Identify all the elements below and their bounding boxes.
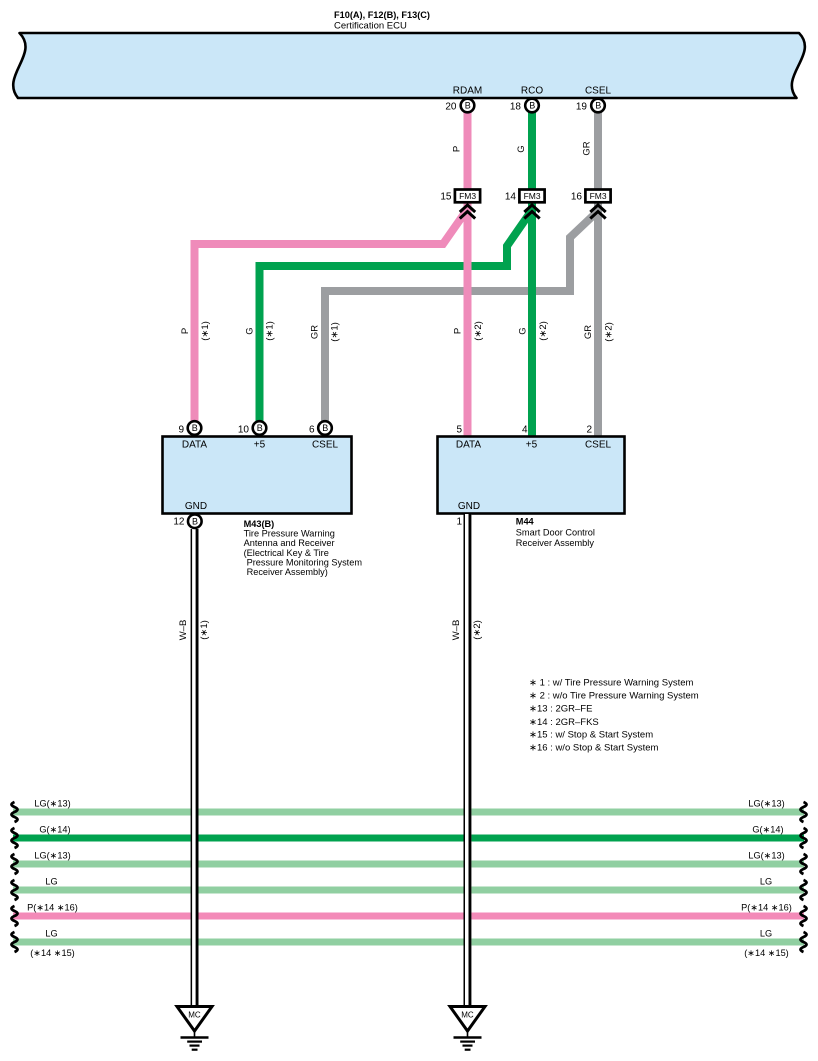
svg-text:GR: GR [583, 325, 594, 339]
notes list [529, 678, 699, 754]
svg-text:Pressure Monitoring System: Pressure Monitoring System [247, 557, 363, 567]
svg-text:LG: LG [45, 929, 57, 939]
svg-text:∗ 2 : w/o Tire Pressure Warnin: ∗ 2 : w/o Tire Pressure Warning System [529, 691, 699, 702]
svg-text:(∗1): (∗1) [330, 322, 341, 342]
svg-text:(∗2): (∗2) [472, 620, 483, 640]
wire W-B from M43 GND to ground MC (white wire covers buses) [191, 529, 199, 1007]
svg-text:2: 2 [586, 425, 592, 436]
svg-text:(Electrical Key & Tire: (Electrical Key & Tire [244, 548, 329, 558]
svg-text:M43(B): M43(B) [244, 519, 275, 529]
pin 19 circle B [591, 99, 605, 113]
svg-text:B: B [192, 516, 198, 526]
svg-text:∗13 : 2GR–FE: ∗13 : 2GR–FE [529, 704, 592, 715]
svg-text:15: 15 [440, 192, 452, 203]
svg-text:(∗1): (∗1) [200, 321, 211, 341]
svg-text:FM3: FM3 [524, 191, 541, 201]
svg-text:P(∗14 ∗16): P(∗14 ∗16) [741, 903, 792, 913]
svg-text:LG: LG [760, 929, 772, 939]
wire GR branch to M43 CSEL (behind others) [325, 211, 598, 422]
svg-text:P: P [180, 328, 191, 334]
svg-text:16: 16 [571, 192, 583, 203]
pin 18 circle B [525, 99, 539, 113]
svg-text:GND: GND [185, 501, 207, 512]
wire W-B from M44 GND to ground MC (white wire covers buses) [464, 514, 472, 1007]
bus wire LG(*13) second [13, 861, 804, 868]
svg-text:Certification ECU: Certification ECU [334, 21, 407, 32]
svg-text:14: 14 [505, 192, 517, 203]
wire G vertical to M44 +5 [528, 200, 536, 437]
svg-text:B: B [322, 423, 328, 433]
svg-text:G(∗14): G(∗14) [39, 825, 70, 835]
wire G branch to M43 +5 [260, 210, 533, 422]
M43 pin 12 circle B [188, 514, 202, 528]
svg-text:M44: M44 [516, 517, 535, 527]
bus wire P(*14 *16) [13, 913, 804, 920]
svg-text:GR: GR [582, 141, 593, 155]
svg-text:19: 19 [576, 102, 588, 113]
svg-text:B: B [257, 423, 263, 433]
svg-text:LG: LG [760, 877, 772, 887]
wire P vertical to M44 DATA [464, 200, 472, 437]
svg-text:∗14 : 2GR–FKS: ∗14 : 2GR–FKS [529, 717, 599, 728]
svg-text:4: 4 [522, 425, 528, 436]
bus wire G(*14) [13, 835, 804, 842]
svg-text:DATA: DATA [182, 440, 208, 451]
svg-text:5: 5 [456, 425, 462, 436]
connector FM3 pin 14 [505, 190, 545, 219]
svg-text:RCO: RCO [521, 86, 543, 97]
svg-text:B: B [465, 101, 471, 111]
svg-text:P: P [452, 328, 463, 334]
wire P from ECU RDAM to FM3 [464, 108, 472, 192]
svg-text:12: 12 [173, 517, 185, 528]
svg-text:+5: +5 [254, 440, 266, 451]
M43 label text [244, 519, 363, 577]
M43(B) box [163, 437, 352, 514]
svg-text:Receiver Assembly: Receiver Assembly [516, 538, 595, 548]
svg-text:P(∗14 ∗16): P(∗14 ∗16) [27, 903, 78, 913]
svg-text:CSEL: CSEL [585, 86, 612, 97]
svg-text:18: 18 [510, 102, 522, 113]
wire G from ECU RCO to FM3 [528, 108, 536, 192]
wire GR from ECU CSEL to FM3 [594, 108, 602, 192]
bus tear marks left [12, 802, 18, 952]
svg-text:DATA: DATA [456, 440, 482, 451]
svg-text:(∗1): (∗1) [265, 321, 276, 341]
svg-text:+5: +5 [526, 440, 538, 451]
svg-text:FM3: FM3 [459, 191, 476, 201]
wire GR vertical to M44 CSEL [594, 200, 602, 437]
connector FM3 pin 16 [571, 190, 611, 219]
svg-text:10: 10 [238, 425, 250, 436]
svg-text:RDAM: RDAM [453, 86, 482, 97]
svg-text:G(∗14): G(∗14) [752, 825, 783, 835]
bus wire LG(*13) [13, 809, 804, 816]
M44 box [438, 437, 625, 514]
M43 pin 9 circle B [188, 421, 202, 435]
bus tear marks right [801, 802, 807, 952]
svg-text:FM3: FM3 [590, 191, 607, 201]
svg-text:F10(A), F12(B), F13(C): F10(A), F12(B), F13(C) [334, 10, 430, 20]
svg-text:(∗2): (∗2) [604, 322, 615, 342]
svg-text:LG: LG [45, 877, 57, 887]
svg-text:(∗14 ∗15): (∗14 ∗15) [30, 948, 75, 958]
svg-text:LG(∗13): LG(∗13) [748, 799, 784, 809]
svg-text:G: G [517, 327, 528, 334]
svg-text:B: B [192, 423, 198, 433]
svg-text:GR: GR [310, 325, 321, 339]
svg-text:9: 9 [178, 425, 184, 436]
svg-text:(∗2): (∗2) [538, 321, 549, 341]
svg-text:1: 1 [456, 517, 462, 528]
svg-text:CSEL: CSEL [585, 440, 612, 451]
svg-text:(∗14 ∗15): (∗14 ∗15) [744, 948, 789, 958]
ground MC right [450, 1007, 485, 1050]
pin 20 circle B [461, 99, 475, 113]
svg-text:B: B [529, 101, 535, 111]
svg-text:LG(∗13): LG(∗13) [34, 799, 70, 809]
svg-text:P: P [452, 146, 463, 152]
svg-text:W–B: W–B [451, 620, 462, 641]
ECU F10/F12/F13 Certification ECU band [13, 33, 805, 98]
svg-text:G: G [516, 145, 527, 152]
bus labels right [741, 799, 792, 959]
svg-text:Smart Door Control: Smart Door Control [516, 528, 595, 538]
svg-text:∗ 1 : w/ Tire Pressure Warning: ∗ 1 : w/ Tire Pressure Warning System [529, 678, 693, 689]
ground MC left [177, 1007, 212, 1050]
M44 label text [516, 517, 595, 549]
svg-text:GND: GND [458, 501, 480, 512]
svg-text:Antenna and Receiver: Antenna and Receiver [244, 538, 335, 548]
svg-text:(∗1): (∗1) [199, 620, 210, 640]
svg-text:Receiver Assembly): Receiver Assembly) [247, 567, 328, 577]
M43 pin 10 circle B [253, 421, 267, 435]
svg-text:20: 20 [445, 102, 457, 113]
bus wire LG [13, 887, 804, 894]
M43 pin 6 circle B [318, 421, 332, 435]
svg-text:LG(∗13): LG(∗13) [34, 851, 70, 861]
svg-text:Tire Pressure Warning: Tire Pressure Warning [244, 529, 335, 539]
svg-text:∗16 : w/o Stop & Start System: ∗16 : w/o Stop & Start System [529, 743, 658, 754]
svg-text:LG(∗13): LG(∗13) [748, 851, 784, 861]
bus wire LG (*14 *15) [13, 939, 804, 946]
svg-text:6: 6 [309, 425, 315, 436]
svg-text:MC: MC [461, 1011, 474, 1020]
svg-text:G: G [245, 327, 256, 334]
connector FM3 pin 15 [440, 190, 480, 219]
svg-text:(∗2): (∗2) [473, 321, 484, 341]
svg-text:B: B [595, 101, 601, 111]
svg-text:MC: MC [188, 1011, 201, 1020]
svg-text:W–B: W–B [178, 620, 189, 641]
svg-text:∗15 : w/ Stop & Start System: ∗15 : w/ Stop & Start System [529, 730, 653, 741]
svg-text:CSEL: CSEL [312, 440, 339, 451]
wire P branch to M43 DATA [195, 209, 468, 422]
bus labels left [27, 799, 78, 959]
